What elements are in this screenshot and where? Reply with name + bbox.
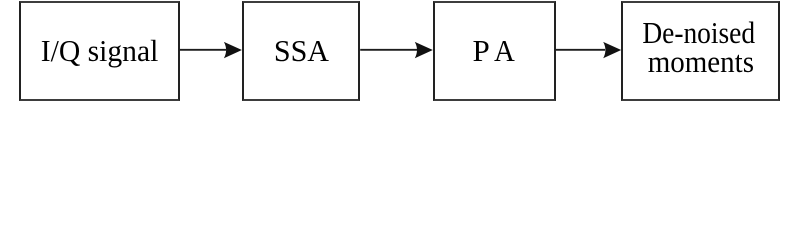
block: PA [433, 1, 556, 101]
wire: arrow SSA to PA [360, 42, 433, 58]
block: SSA [242, 1, 360, 101]
block: De-noised moments [621, 1, 780, 101]
block: I/Q signal [19, 1, 180, 101]
wire: arrow PA to De-noised moments [556, 42, 622, 58]
wire: arrow I/Q signal to SSA [179, 42, 242, 58]
